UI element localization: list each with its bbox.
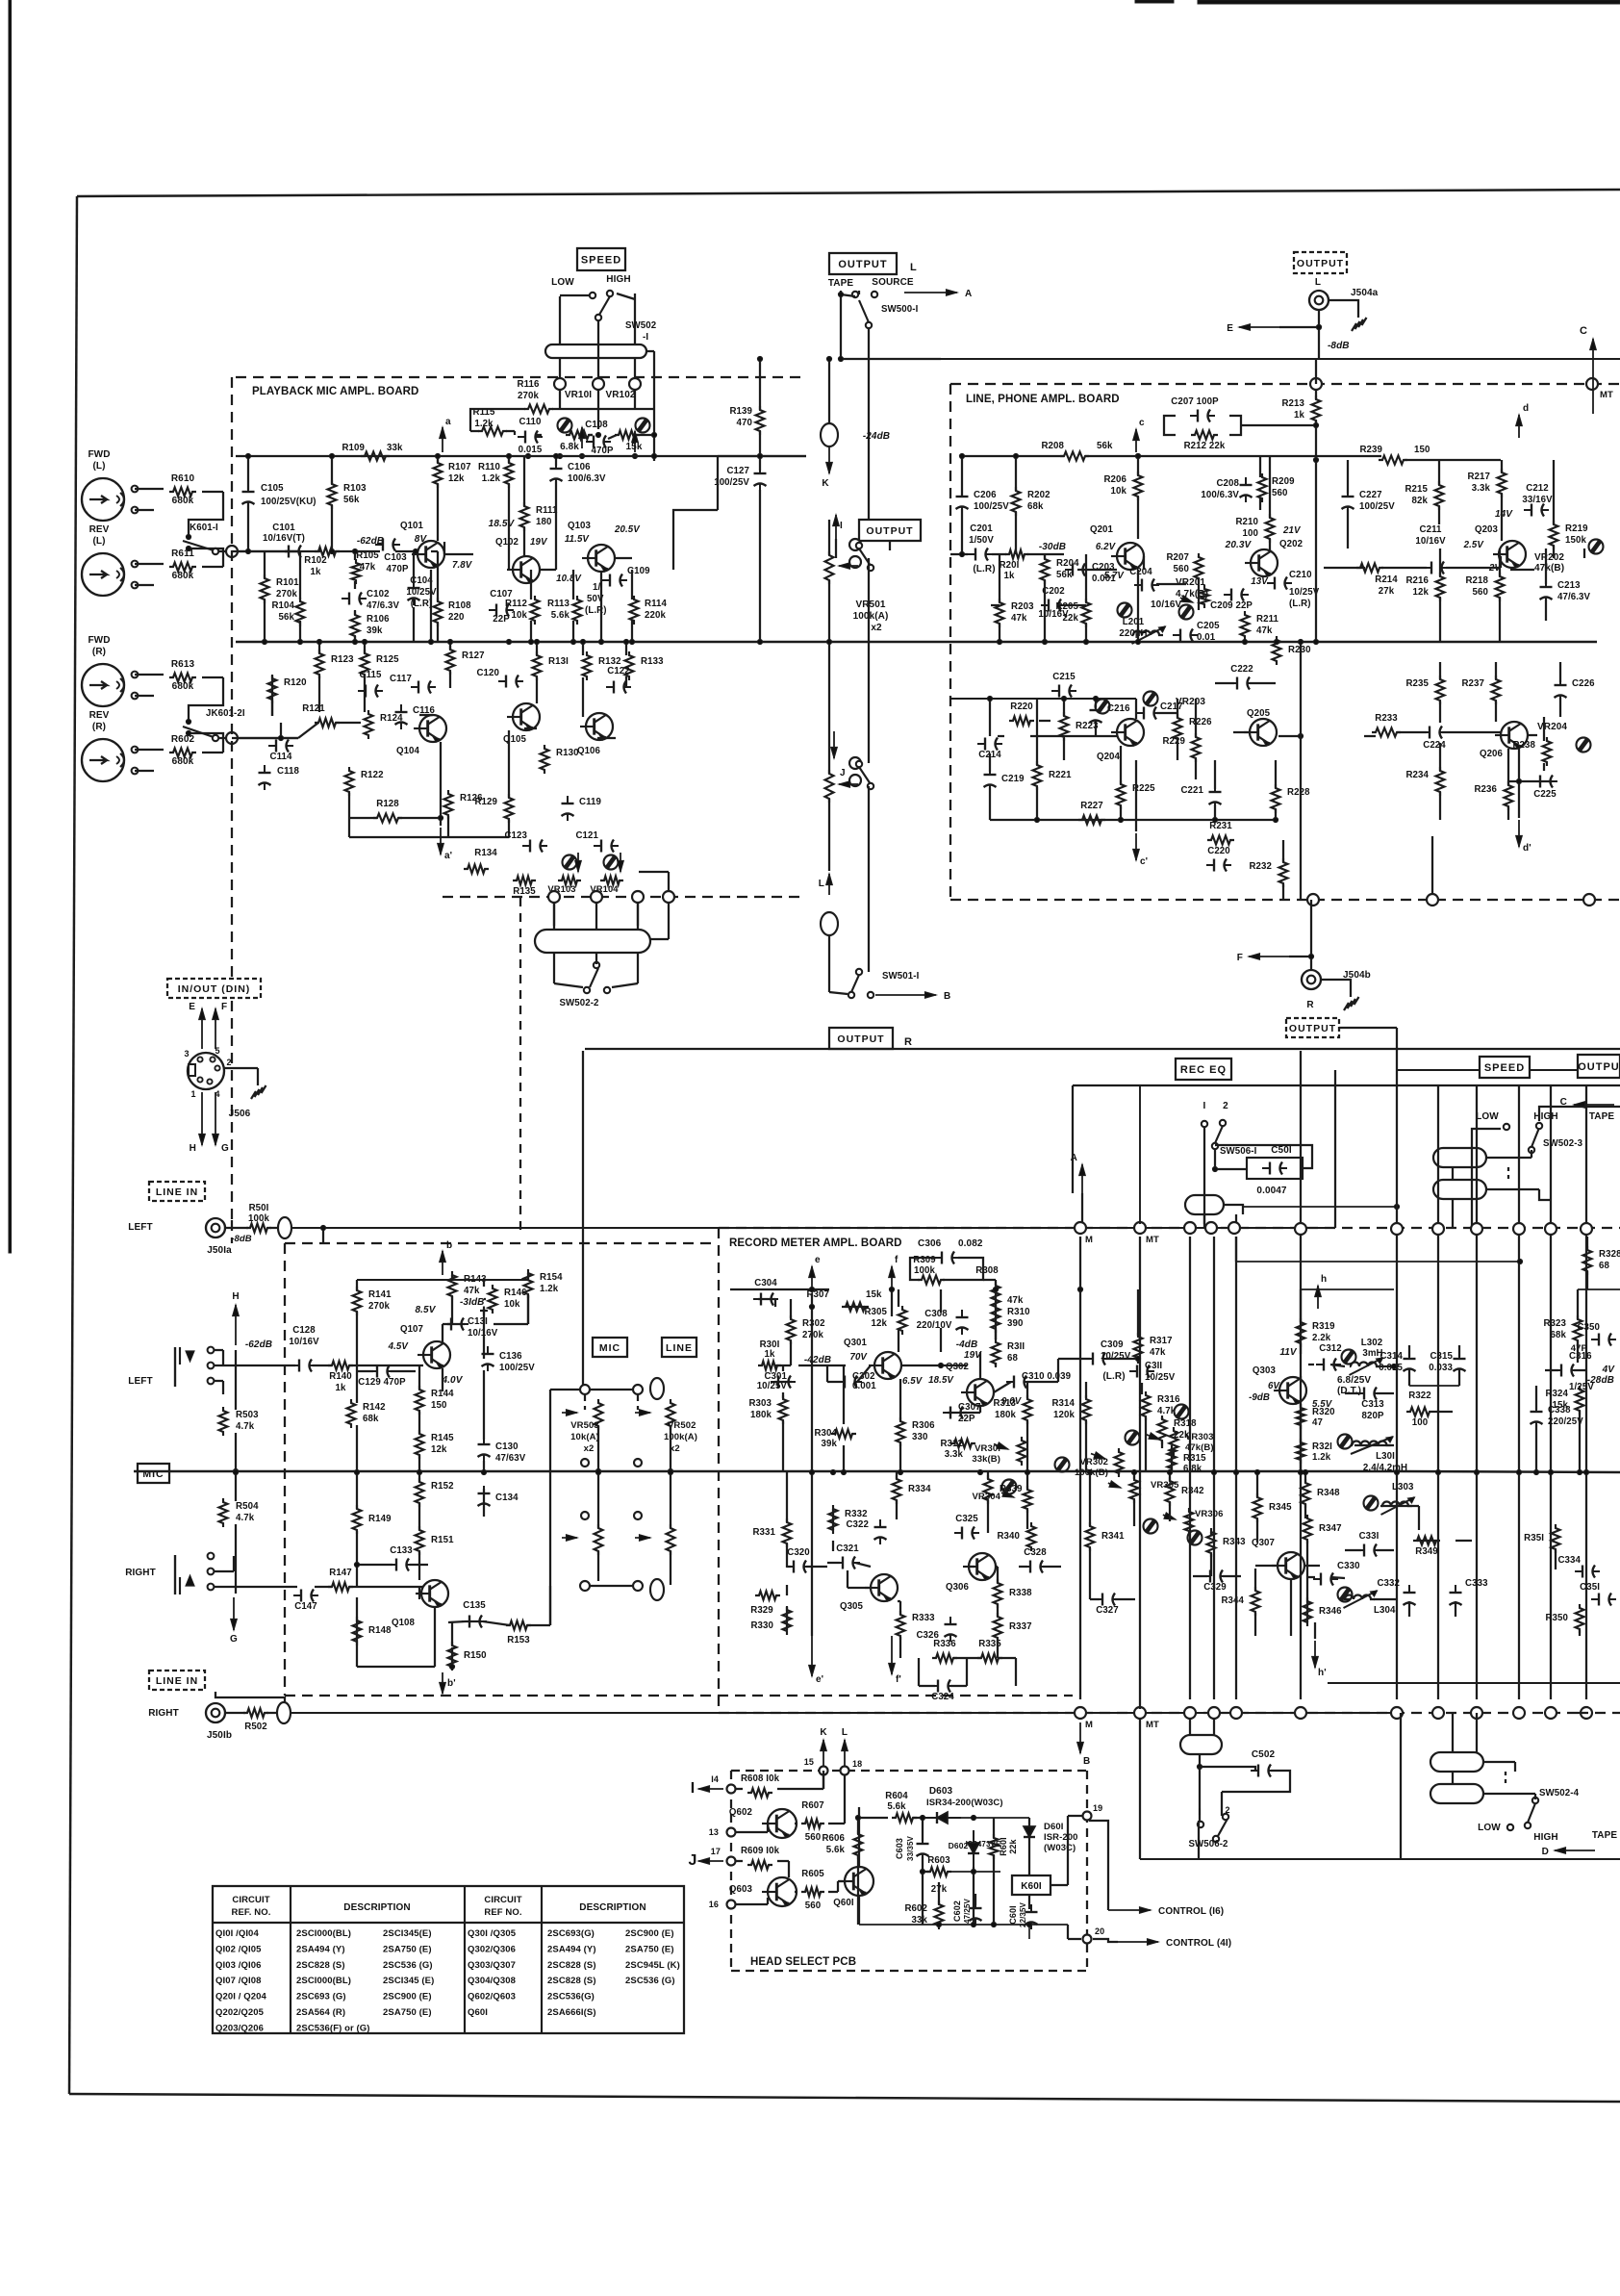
svg-text:C329: C329 <box>1203 1582 1227 1593</box>
svg-text:R221: R221 <box>1049 770 1072 780</box>
resistor R208 56k <box>1041 441 1113 461</box>
wire <box>857 1818 859 1834</box>
junction <box>1242 639 1247 644</box>
resistor R302 <box>787 1315 825 1344</box>
svg-text:C135: C135 <box>463 1600 486 1611</box>
label J <box>689 1852 697 1869</box>
junction <box>428 639 433 644</box>
wire <box>653 409 655 461</box>
resistor R604 5.6k <box>885 1791 917 1823</box>
wire <box>1259 456 1261 477</box>
capacitor C109 <box>585 566 650 616</box>
wire <box>356 1531 358 1587</box>
wire <box>470 409 525 431</box>
wire <box>506 430 515 432</box>
wire <box>1139 1237 1141 1709</box>
svg-text:R142: R142 <box>363 1402 386 1413</box>
node b' arrow <box>440 1672 446 1694</box>
svg-text:-42dB: -42dB <box>804 1355 831 1365</box>
junction <box>595 1468 600 1473</box>
svg-text:VR201: VR201 <box>1176 577 1205 588</box>
trimmer mark L304 <box>1338 1588 1353 1602</box>
trimmer mark e <box>1144 1519 1158 1534</box>
label C <box>1580 325 1587 337</box>
wire <box>1452 1199 1454 1229</box>
wire <box>235 1433 237 1471</box>
capacitor C211 <box>1415 524 1449 574</box>
junction <box>971 1815 975 1820</box>
label h' <box>1318 1668 1327 1678</box>
resistor VR503 element <box>595 1399 603 1430</box>
label 100k(A) <box>853 611 889 622</box>
svg-text:C136: C136 <box>499 1351 522 1362</box>
resistor R334 <box>893 1475 932 1504</box>
svg-text:15k: 15k <box>626 442 643 452</box>
svg-text:2SC693(G): 2SC693(G) <box>547 1928 595 1939</box>
svg-text:R608 I0k: R608 I0k <box>741 1773 780 1784</box>
resistor R225 <box>1117 780 1156 809</box>
resistor R230 <box>1273 636 1311 665</box>
svg-text:R207: R207 <box>1166 552 1189 563</box>
resistor R111 <box>520 502 559 531</box>
transistor Q108 <box>392 1580 448 1628</box>
wire <box>858 291 860 294</box>
wire <box>841 294 855 296</box>
wire <box>767 1898 769 1904</box>
label J506 <box>229 1109 251 1119</box>
junction <box>1026 1922 1031 1926</box>
playback board outline bottom <box>443 896 806 898</box>
svg-text:CIRCUIT: CIRCUIT <box>484 1895 521 1905</box>
svg-text:a': a' <box>444 851 452 861</box>
node <box>629 378 641 390</box>
capacitor C108 <box>585 420 614 456</box>
junction <box>651 453 656 458</box>
svg-text:C221: C221 <box>1180 785 1203 796</box>
label 4.7k(B) <box>1176 589 1208 600</box>
wire <box>437 551 439 601</box>
svg-text:15: 15 <box>804 1757 814 1767</box>
wire <box>582 642 584 655</box>
wire <box>1345 1392 1361 1394</box>
label A <box>965 289 972 299</box>
svg-text:10/25V: 10/25V <box>1145 1372 1176 1383</box>
wire <box>979 1352 981 1379</box>
resistor R309 100k <box>913 1255 945 1285</box>
svg-text:1/: 1/ <box>593 582 600 593</box>
wire <box>1483 1761 1515 1763</box>
svg-text:R113: R113 <box>547 599 570 609</box>
wire <box>1085 569 1117 571</box>
wire <box>795 1823 797 1824</box>
wire <box>237 550 298 552</box>
wire <box>508 820 510 837</box>
wire <box>1269 539 1271 552</box>
wire <box>997 1604 999 1617</box>
junction <box>316 639 321 644</box>
wire <box>1559 662 1561 682</box>
resistor R235 <box>1405 676 1444 704</box>
junction <box>1316 324 1321 329</box>
label TAPE <box>828 278 854 289</box>
wire <box>639 871 669 873</box>
svg-text:R229: R229 <box>1162 736 1185 747</box>
wire <box>1058 1358 1090 1360</box>
svg-text:I: I <box>691 1780 696 1797</box>
wire <box>318 642 320 653</box>
svg-text:2SC693 (G): 2SC693 (G) <box>296 1992 346 2003</box>
junction <box>1061 696 1066 701</box>
wire <box>560 294 589 296</box>
junction <box>1034 817 1039 822</box>
svg-text:C128: C128 <box>292 1325 316 1336</box>
wire rail <box>1401 1471 1620 1472</box>
capacitor C602 <box>952 1898 982 1926</box>
svg-text:R208: R208 <box>1041 441 1064 451</box>
wire <box>828 984 830 992</box>
node <box>580 1385 590 1394</box>
svg-text:R50I: R50I <box>249 1203 269 1213</box>
svg-text:820P: 820P <box>1361 1411 1383 1421</box>
svg-text:VR304: VR304 <box>972 1492 1000 1502</box>
resistor R350 <box>1545 1604 1583 1633</box>
resistor VR302 element <box>1115 1448 1124 1477</box>
wire <box>395 550 418 552</box>
wire <box>828 1823 845 1824</box>
label 0.082 <box>958 1238 983 1249</box>
wire <box>995 1280 997 1286</box>
wire <box>1156 583 1186 585</box>
label VR305 <box>1151 1480 1179 1491</box>
label x2 <box>670 1443 680 1454</box>
junction <box>1135 453 1140 458</box>
svg-text:R218: R218 <box>1465 575 1488 586</box>
capacitor C309 <box>1085 1339 1131 1365</box>
transistor Q303 <box>1249 1365 1333 1410</box>
svg-text:LOW: LOW <box>1476 1111 1499 1122</box>
svg-text:C215: C215 <box>1052 672 1076 682</box>
svg-text:100/6.3V: 100/6.3V <box>1201 490 1239 500</box>
wire <box>1452 1713 1454 1752</box>
wire <box>354 610 356 615</box>
wire <box>1198 556 1200 557</box>
svg-text:1.2k: 1.2k <box>1312 1452 1331 1463</box>
resistor R123 <box>316 650 355 678</box>
wire <box>1057 1359 1059 1382</box>
wire <box>356 1471 358 1509</box>
svg-text:39k: 39k <box>367 625 383 636</box>
wire <box>786 1543 788 1568</box>
wire <box>552 408 654 410</box>
node <box>1391 1707 1403 1719</box>
svg-text:20: 20 <box>1095 1926 1104 1936</box>
svg-text:I: I <box>840 521 843 531</box>
svg-text:47k(B): 47k(B) <box>1534 563 1564 574</box>
junction <box>889 1287 894 1291</box>
resistor R104 <box>271 598 304 626</box>
wire <box>451 1275 453 1280</box>
resistor R129 <box>474 794 513 823</box>
arrow to A <box>904 290 957 296</box>
junction <box>997 639 1001 644</box>
svg-text:R134: R134 <box>474 848 497 858</box>
wire <box>989 753 991 772</box>
wire <box>650 938 669 940</box>
resistor R501 100k <box>246 1203 271 1233</box>
wire <box>634 358 636 384</box>
wire <box>466 1620 482 1622</box>
resistor R308 <box>975 1265 1024 1311</box>
svg-text:-3IdB: -3IdB <box>460 1297 485 1308</box>
svg-text:R150: R150 <box>464 1650 487 1661</box>
svg-text:-4dB: -4dB <box>956 1339 978 1350</box>
wire <box>1377 1549 1394 1551</box>
wire <box>1495 662 1497 679</box>
wire <box>451 1622 453 1645</box>
junction <box>354 1562 359 1567</box>
wire <box>514 431 516 435</box>
node <box>1228 1222 1240 1234</box>
capacitor C331 <box>1356 1531 1381 1557</box>
junction <box>1394 1469 1399 1474</box>
wire <box>941 1365 967 1366</box>
resistor R219 <box>1550 521 1589 549</box>
svg-text:10/25V: 10/25V <box>1101 1351 1131 1362</box>
node <box>226 546 238 557</box>
wire <box>1145 1417 1147 1471</box>
wire <box>215 1692 285 1702</box>
label E <box>1227 323 1233 334</box>
wire <box>1300 1051 1302 1699</box>
DIN arrow H <box>199 1092 206 1145</box>
wire <box>1318 310 1320 359</box>
wire <box>1256 1519 1258 1543</box>
capacitor C103 <box>375 539 409 575</box>
wire <box>1304 1504 1306 1518</box>
wire <box>189 492 223 537</box>
junction <box>936 1922 941 1926</box>
resistor R103 <box>328 480 367 509</box>
svg-text:OUTPUT: OUTPUT <box>837 1033 884 1045</box>
wire <box>615 557 632 559</box>
wire <box>437 456 439 463</box>
svg-text:15k: 15k <box>1553 1400 1569 1411</box>
label PLAYBACK MIC AMPL. BOARD <box>252 386 418 397</box>
transistor Q103 <box>556 521 641 584</box>
wire <box>1198 1821 1200 1859</box>
svg-text:R337: R337 <box>1009 1621 1032 1632</box>
svg-text:MIC: MIC <box>142 1468 164 1480</box>
svg-text:180k: 180k <box>995 1410 1016 1420</box>
svg-text:SW502: SW502 <box>625 320 656 331</box>
svg-text:68: 68 <box>1599 1261 1609 1271</box>
wire <box>449 642 451 650</box>
trimmer mark VR103 <box>563 855 577 870</box>
wire <box>555 456 557 466</box>
resistor R339 <box>984 1475 1024 1504</box>
svg-text:C324: C324 <box>931 1692 954 1702</box>
wire <box>247 503 249 551</box>
resistor R320 <box>1297 1404 1335 1429</box>
svg-text:R613: R613 <box>171 659 195 670</box>
svg-text:10/25V: 10/25V <box>406 587 437 598</box>
wire <box>1269 456 1271 518</box>
record meter board outline left <box>718 1228 720 1712</box>
wire <box>1282 840 1284 862</box>
svg-text:2SA750 (E): 2SA750 (E) <box>625 1944 674 1954</box>
svg-text:10/16V(T): 10/16V(T) <box>263 533 305 544</box>
junction <box>598 639 603 644</box>
jack J501b <box>206 1703 225 1722</box>
junction <box>186 719 190 724</box>
svg-text:Q102: Q102 <box>495 537 519 548</box>
arrow CONTROL 41 <box>1118 1939 1158 1946</box>
wire <box>555 481 557 556</box>
wire <box>135 770 154 772</box>
svg-text:R328: R328 <box>1599 1249 1620 1260</box>
resistor VR301 element <box>1018 1437 1026 1466</box>
wire <box>1458 1345 1460 1357</box>
svg-text:R125: R125 <box>376 654 399 665</box>
svg-text:LEFT: LEFT <box>128 1376 152 1387</box>
wire <box>1329 299 1349 301</box>
junction <box>1254 1469 1259 1474</box>
svg-text:470: 470 <box>737 418 752 428</box>
wire <box>1300 1343 1302 1354</box>
capacitor C220 <box>1206 846 1231 872</box>
wire <box>1169 1502 1171 1521</box>
svg-text:270k: 270k <box>518 391 539 401</box>
label SOURCE <box>872 277 914 288</box>
wire <box>846 1306 865 1308</box>
label a <box>445 417 451 427</box>
resistor R120 <box>268 675 307 703</box>
wire <box>1093 1939 1118 1942</box>
wire <box>1233 731 1250 733</box>
svg-text:R338: R338 <box>1009 1588 1032 1598</box>
label R <box>1306 1000 1314 1010</box>
svg-text:Q305: Q305 <box>840 1601 864 1612</box>
label d <box>1523 403 1529 414</box>
wire <box>447 816 449 837</box>
wire <box>1417 1540 1436 1542</box>
wire <box>790 1341 792 1365</box>
capacitor C301 <box>757 1371 796 1391</box>
junction <box>1474 1469 1479 1474</box>
svg-text:6.8k: 6.8k <box>560 442 579 452</box>
junction <box>352 548 357 553</box>
label F <box>1237 953 1243 963</box>
playback board outline left <box>231 377 233 1220</box>
phone jack RIGHT <box>125 1553 214 1594</box>
wire <box>1341 980 1351 997</box>
junction <box>841 1469 846 1474</box>
wire <box>540 569 556 571</box>
wire <box>354 551 356 560</box>
svg-text:J50Ia: J50Ia <box>207 1245 232 1256</box>
resistor R146 zig <box>480 1307 488 1315</box>
svg-text:(L.R): (L.R) <box>1289 599 1311 609</box>
svg-text:C: C <box>1580 325 1587 337</box>
svg-text:SPEED: SPEED <box>1484 1062 1525 1074</box>
wire <box>1019 1566 1027 1568</box>
switch SW501 contact <box>856 543 873 571</box>
wire <box>1254 1569 1256 1591</box>
svg-text:R202: R202 <box>1027 490 1050 500</box>
switch SW501-1 contact <box>856 761 873 789</box>
transistor Q104 <box>396 715 446 756</box>
svg-text:2SC828 (S): 2SC828 (S) <box>296 1960 345 1971</box>
wire <box>1254 1613 1256 1636</box>
wire <box>530 621 532 642</box>
svg-text:OUTPUT: OUTPUT <box>1289 1023 1336 1034</box>
resistor R344 <box>1221 1587 1259 1616</box>
arrow to B <box>875 992 936 999</box>
resistor R139 <box>729 406 764 435</box>
wire <box>1476 1085 1478 1699</box>
svg-text:R602: R602 <box>171 734 195 745</box>
capacitor C207 <box>1171 396 1219 422</box>
resistor R109 33k <box>342 443 403 461</box>
wire <box>1555 1550 1557 1569</box>
wire <box>759 456 761 471</box>
svg-text:C120: C120 <box>476 668 499 678</box>
wire <box>1539 1189 1551 1200</box>
wire <box>858 1896 860 1925</box>
VR101 wiper <box>579 427 586 448</box>
inductor L201 <box>1119 617 1165 644</box>
wire <box>993 1818 995 1830</box>
junction <box>354 1469 359 1474</box>
wire <box>1203 1128 1205 1229</box>
junction <box>1516 778 1521 783</box>
label -24dB <box>863 431 890 442</box>
wire <box>617 293 635 299</box>
svg-text:10k: 10k <box>512 610 528 621</box>
wire <box>418 1365 420 1390</box>
node <box>1295 1223 1306 1235</box>
connector capsule SPEED a <box>1433 1148 1486 1167</box>
wire <box>963 1412 980 1414</box>
trimmer mark VR201 <box>1179 605 1194 620</box>
svg-text:2SCI000(BL): 2SCI000(BL) <box>296 1976 351 1986</box>
svg-text:R334: R334 <box>908 1484 931 1494</box>
node I arrow <box>833 515 840 539</box>
junction <box>1517 1259 1522 1263</box>
label TAPE <box>1592 1830 1618 1841</box>
wire <box>222 1350 224 1365</box>
wire <box>966 1658 968 1686</box>
svg-text:R304: R304 <box>814 1428 837 1439</box>
label L <box>819 879 824 889</box>
wire <box>1169 1471 1171 1481</box>
resistor R333 <box>897 1611 936 1640</box>
svg-text:220µH: 220µH <box>1119 628 1147 639</box>
wire <box>1508 780 1537 782</box>
line phone board outline top <box>950 383 1620 385</box>
wire <box>431 550 438 552</box>
wire <box>1543 763 1545 771</box>
svg-text:180k: 180k <box>750 1410 772 1420</box>
svg-text:R139: R139 <box>729 406 752 417</box>
svg-text:C123: C123 <box>504 830 527 841</box>
svg-text:C207 100P: C207 100P <box>1171 396 1219 407</box>
wire <box>1068 1938 1081 1940</box>
frame border bottom <box>69 2094 1620 2102</box>
resistor R301 1k <box>758 1339 781 1370</box>
resistor R606 <box>822 1830 862 1859</box>
label 4V <box>1602 1365 1616 1375</box>
